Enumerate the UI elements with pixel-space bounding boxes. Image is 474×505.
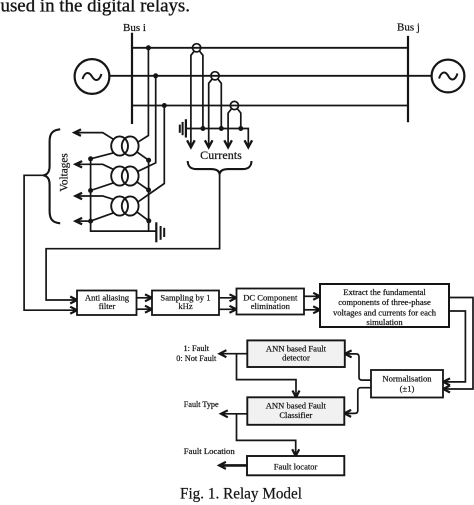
block normalisation (371, 370, 443, 398)
wire neutral bottom rail (91, 221, 157, 231)
block extract fundamental components (320, 284, 449, 327)
wire phase 2 (110, 75, 432, 77)
arrow into filter (voltages) (70, 307, 77, 314)
svg-text:1: Fault: 1: Fault (184, 344, 210, 353)
arrow into normalisation upper (443, 378, 450, 385)
wire classifier output (222, 413, 248, 415)
wire detector to classifier (237, 354, 297, 397)
wire DC elimination to extract (2 lines) (304, 296, 319, 310)
wire classifier to locator (237, 414, 296, 455)
svg-text:Fault Location: Fault Location (184, 446, 236, 456)
wire primary neutral (148, 160, 150, 231)
transformer VT2 (111, 166, 138, 185)
wire VT1 secondary to neutral (91, 153, 114, 159)
wire currents to filter (46, 174, 220, 300)
wire voltages to filter (24, 175, 76, 310)
node tap phase 2 (153, 73, 158, 78)
wire VT2 secondary to neutral (91, 183, 114, 191)
wire sampler to DC elimination (2 lines) (219, 298, 236, 310)
transformer VT1 (111, 136, 138, 155)
bus bar i (131, 33, 133, 124)
wire voltage secondary c (77, 196, 114, 199)
wire VT3 secondary to neutral (91, 213, 114, 221)
transformer CT1 (191, 44, 203, 147)
transformer CT2 (209, 72, 222, 147)
wire normalisation to detector (346, 354, 372, 380)
block DC component elimination (237, 289, 305, 315)
node secondary neutral 1 (88, 156, 93, 161)
svg-text:kHz: kHz (178, 301, 193, 311)
wire phase 1 (132, 47, 408, 49)
svg-text:Extract the fundamental: Extract the fundamental (343, 287, 426, 297)
svg-text:Fig. 1. Relay Model: Fig. 1. Relay Model (180, 485, 302, 502)
brace voltages (43, 129, 60, 223)
wire VT2 primary from phase 2 (137, 76, 156, 172)
ground (CT common) (180, 119, 186, 137)
svg-text:used in the digital relays.: used in the digital relays. (1, 0, 191, 17)
wire VT3 primary from phase 3 (137, 106, 164, 203)
wire phase 3 (132, 105, 408, 107)
wire voltage secondary b (77, 164, 114, 169)
wire VT1 primary from phase 1 (138, 48, 149, 143)
node CT1 common (200, 126, 205, 131)
node CT2 common (219, 126, 224, 131)
brace currents (188, 161, 252, 174)
block anti-aliasing filter (77, 291, 137, 316)
svg-text:0: Not Fault: 0: Not Fault (176, 354, 217, 363)
wire CT common (186, 129, 248, 147)
generator G2 (432, 60, 465, 93)
ground (VT neutral) (156, 222, 164, 242)
node primary neutral 2 (146, 188, 151, 193)
wire locator output (222, 464, 247, 467)
svg-text:components of three-phase: components of three-phase (338, 297, 431, 307)
wire voltage secondary a (75, 133, 113, 140)
arrow current output n (245, 140, 253, 147)
arrow voltage output n (76, 218, 83, 224)
wire extract to normalisation (outer) (444, 298, 473, 390)
transformer CT3 (228, 101, 241, 146)
svg-text:Classifier: Classifier (279, 410, 312, 420)
svg-text:Voltages: Voltages (58, 153, 70, 192)
svg-text:filter: filter (99, 301, 116, 311)
svg-text:Fault Type: Fault Type (184, 400, 219, 409)
block sampler (152, 291, 219, 316)
wire extract to normalisation (inner) (444, 311, 465, 382)
node CT3 common (238, 126, 243, 131)
wire secondary neutral (90, 159, 92, 221)
arrow voltage output c (76, 193, 83, 199)
wire VT1 primary to neutral (137, 152, 149, 160)
node primary neutral 1 (146, 158, 151, 163)
svg-text:voltages and currents for each: voltages and currents for each (333, 307, 437, 317)
node secondary neutral 2 (88, 188, 93, 193)
svg-text:Normalisation: Normalisation (382, 373, 432, 383)
block ANN fault classifier (247, 397, 344, 425)
svg-text:elimination: elimination (251, 301, 291, 311)
block fault locator (247, 456, 344, 475)
transformer VT3 (111, 196, 138, 215)
svg-text:simulation: simulation (366, 317, 403, 327)
wire voltage secondary n (77, 220, 91, 222)
svg-text:Bus j: Bus j (397, 22, 420, 34)
svg-text:Fault locator: Fault locator (274, 461, 318, 471)
svg-text:Currents: Currents (200, 148, 242, 162)
arrow current output b (205, 140, 213, 147)
wire VT3 primary to neutral (137, 212, 149, 221)
node primary neutral 3 (146, 218, 151, 223)
wire filter to sampler (2 lines) (137, 298, 152, 309)
arrow into normalisation lower (443, 386, 450, 393)
block ANN fault detector (247, 340, 344, 367)
node secondary neutral 3 (88, 219, 93, 224)
arrow current output c (224, 140, 232, 147)
arrow current output a (187, 140, 195, 147)
svg-text:(±1): (±1) (400, 384, 415, 394)
arrow voltage output b (76, 161, 83, 167)
node tap phase 1 (146, 45, 151, 50)
generator G1 (75, 59, 110, 94)
wire VT2 primary to neutral (137, 182, 149, 190)
arrow into filter (currents) (70, 297, 77, 304)
wire normalisation to classifier (345, 388, 371, 414)
node tap phase 3 (162, 103, 167, 108)
bus bar j (407, 36, 409, 122)
arrow voltage output a (74, 129, 81, 135)
svg-text:Bus i: Bus i (123, 22, 146, 34)
svg-text:detector: detector (282, 353, 310, 363)
wire detector output (221, 353, 248, 355)
